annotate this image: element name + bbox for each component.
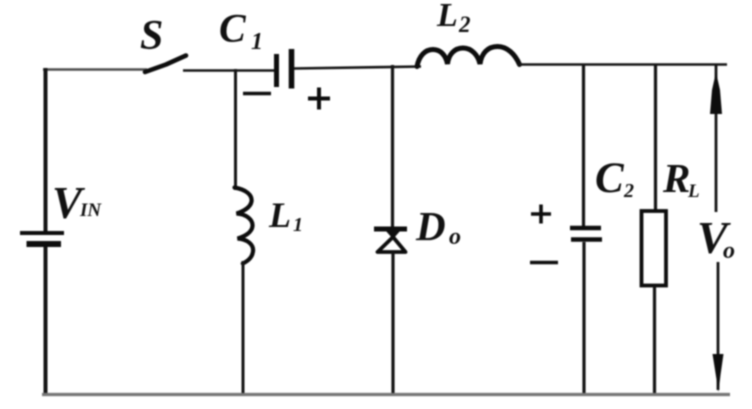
- capacitor C1 right plate: [289, 49, 295, 89]
- svg-text:o: o: [723, 238, 735, 264]
- svg-text:1: 1: [293, 214, 303, 236]
- Vo arrowhead up: [710, 72, 722, 114]
- wire: C1/L1 branch vertical: [234, 69, 237, 190]
- inductor L2: [417, 47, 520, 67]
- minus sign (C1 left polarity): [243, 92, 271, 96]
- svg-text:2: 2: [458, 12, 471, 37]
- plus sign (C1 right polarity): [308, 88, 330, 110]
- switch S (blade): [145, 56, 186, 73]
- wire: L1 to bottom rail: [242, 261, 245, 395]
- battery Vin short plate: [27, 241, 62, 247]
- capacitor C2 top plate: [570, 226, 601, 231]
- wire: RL branch vertical upper: [654, 64, 657, 212]
- wire: RL to bottom rail: [653, 286, 656, 395]
- diode Do cathode bar: [374, 227, 407, 232]
- diode Do apex wedge: [385, 230, 401, 239]
- resistor RL body: [642, 211, 667, 286]
- svg-text:S: S: [140, 13, 163, 59]
- battery Vin long plate: [20, 231, 64, 235]
- svg-text:o: o: [449, 224, 461, 250]
- wire: C2 branch vertical upper: [582, 64, 585, 228]
- minus sign (C2 polarity): [530, 261, 558, 265]
- wire: L2 to right end (top rail right): [518, 63, 727, 66]
- plus sign (C2 polarity): [531, 205, 551, 224]
- svg-text:L: L: [687, 181, 700, 202]
- svg-text:C: C: [595, 155, 625, 202]
- wire: Vo line lower segment: [717, 262, 720, 390]
- wire: bottom ground rail: [42, 393, 730, 396]
- svg-text:2: 2: [623, 180, 634, 202]
- Vo arrowhead down: [713, 354, 724, 392]
- inductor L1: [235, 188, 254, 264]
- wire: C1 to L2: [294, 67, 421, 69]
- wire: left rail upper (Vin top): [44, 68, 48, 233]
- svg-text:C: C: [219, 6, 247, 51]
- wire: Vo line upper segment: [715, 64, 718, 212]
- wire: switch to C1: [183, 69, 275, 72]
- svg-text:L: L: [268, 195, 291, 235]
- svg-text:R: R: [662, 155, 690, 201]
- svg-text:IN: IN: [79, 200, 102, 221]
- svg-text:1: 1: [251, 29, 263, 55]
- wire: left rail lower (Vin bottom to ground rail): [44, 247, 48, 396]
- capacitor C2 bottom plate: [571, 237, 602, 242]
- wire: C2 to bottom rail: [582, 242, 585, 395]
- diode Do triangle: [378, 237, 406, 252]
- capacitor C1 left plate: [274, 54, 279, 87]
- svg-text:D: D: [415, 203, 446, 249]
- wire: diode branch vertical upper: [391, 65, 394, 229]
- wire: top rail left segment (Vin to switch): [43, 68, 147, 70]
- wire: diode to bottom rail: [391, 252, 394, 395]
- svg-text:L: L: [436, 0, 458, 34]
